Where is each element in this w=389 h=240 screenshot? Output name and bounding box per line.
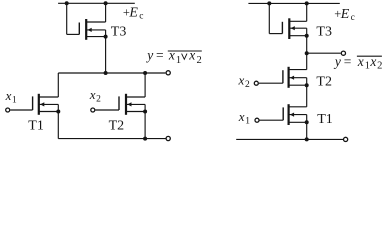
svg-text:T2: T2 [109, 118, 125, 133]
svg-text:T3: T3 [316, 24, 332, 39]
wire: x2 input lead (right) [259, 82, 283, 84]
node: T1 source junction (right) [305, 120, 309, 124]
node: T3 source junction (left) [104, 35, 108, 39]
label formula y = NOT(x1 x2) [333, 54, 382, 72]
wire: T2 source down (left) [144, 104, 146, 138]
label x2 (right) [238, 73, 251, 91]
label formula y = NOT(x1 OR x2) [145, 48, 202, 66]
svg-text:E: E [128, 6, 138, 21]
node: T1 source junction (left) [56, 110, 60, 114]
terminal: output y (left) [166, 71, 170, 75]
transistor T2 (right) [283, 67, 307, 88]
wire: ground line (right) [236, 138, 343, 140]
terminal: ground right end (right) [344, 137, 348, 141]
wire: x1 input lead (right) [260, 119, 284, 121]
node: T2 source junction (left) [143, 110, 147, 114]
node: T3 source junction (right) [305, 34, 309, 38]
svg-text:2: 2 [197, 55, 202, 66]
svg-text:E: E [340, 7, 350, 22]
wire: T1 drain up (left) [57, 73, 59, 97]
label x1 (right) [238, 109, 251, 127]
svg-text:2: 2 [377, 61, 382, 72]
wire: T3 drain to rail (left) [105, 3, 107, 22]
node: rail-drain junction (right) [305, 1, 309, 5]
label T2 (left) [109, 118, 125, 133]
svg-text:T2: T2 [316, 75, 332, 90]
terminal x2 (right) [254, 81, 258, 85]
wire: output node line (right) [307, 52, 341, 54]
node: output junction at T3 (left) [104, 71, 108, 75]
svg-text:1: 1 [176, 55, 181, 66]
wire: rail to T3 gate (right) [269, 3, 282, 33]
svg-text:1: 1 [12, 96, 17, 106]
node: ground junction (right) [305, 137, 309, 141]
svg-text:x: x [168, 48, 175, 63]
wire: T2 drain up (left) [144, 73, 146, 97]
wire: T2 source to T1 drain (right) [306, 78, 308, 107]
node: output junction (right) [305, 51, 309, 55]
wire: rail to T3 gate (left) [67, 3, 80, 34]
terminal x2 (left) [91, 108, 95, 112]
svg-text:x: x [89, 87, 96, 102]
power rail +Ec (left) [58, 2, 135, 4]
svg-text:1: 1 [365, 61, 370, 72]
label T1 (left) [28, 118, 44, 133]
svg-text:=: = [156, 48, 164, 63]
transistor T1 (left) [33, 94, 59, 115]
svg-text:x: x [188, 48, 195, 63]
svg-text:c: c [351, 13, 355, 23]
node: output junction at T2 drain (left) [143, 71, 147, 75]
label x2 (left) [89, 87, 101, 105]
wire: x1 input lead (left) [10, 109, 32, 111]
wire: T1 source to ground (right) [306, 115, 308, 140]
svg-text:T3: T3 [111, 24, 127, 39]
svg-text:2: 2 [96, 94, 101, 104]
svg-text:T1: T1 [317, 112, 333, 127]
transistor T1 (right) [283, 104, 307, 125]
node: ground junction at T2 (left) [143, 137, 147, 141]
svg-text:2: 2 [245, 80, 250, 90]
wire: T3 drain to rail (right) [306, 3, 308, 21]
svg-text:x: x [238, 109, 245, 124]
svg-text:x: x [5, 88, 12, 103]
wire: output node line (left) [58, 72, 165, 74]
wire: T1 source down (left) [57, 104, 59, 138]
terminal: output y (right) [341, 51, 345, 55]
power rail +Ec (right) [248, 2, 339, 4]
node: T2 source junction (right) [305, 83, 309, 87]
transistor T3 (left load) [79, 19, 105, 40]
node: rail-gate junction (right) [267, 1, 271, 5]
wire: x2 input lead (left) [95, 109, 119, 111]
terminal: bottom output (left) [166, 136, 170, 140]
svg-text:x: x [238, 73, 245, 88]
wire: ground line (left) [58, 138, 165, 140]
svg-text:1: 1 [245, 116, 250, 126]
svg-text:T1: T1 [28, 118, 44, 133]
transistor T2 (left) [119, 94, 145, 115]
svg-text:y: y [333, 54, 341, 69]
label T1 (right) [317, 112, 333, 127]
svg-text:=: = [344, 54, 352, 69]
wire: T2 drain up (right) [306, 53, 308, 69]
wire: T3 source to output node (left) [105, 30, 107, 73]
svg-text:y: y [145, 48, 153, 63]
label +Ec (right) [334, 7, 355, 23]
node: rail-drain junction (left) [104, 1, 108, 5]
label x1 (left) [5, 88, 17, 106]
svg-text:c: c [139, 12, 143, 22]
label T2 (right) [316, 75, 332, 90]
wire: T3 source to output node (right) [306, 28, 308, 53]
terminal x1 (right) [255, 118, 259, 122]
node: rail-gate junction (left) [65, 1, 69, 5]
terminal x1 (left) [6, 108, 10, 112]
label T3 (left) [111, 24, 127, 39]
transistor T3 (right load) [282, 18, 306, 39]
label T3 (right) [316, 24, 332, 39]
label +Ec (left) [123, 6, 144, 22]
